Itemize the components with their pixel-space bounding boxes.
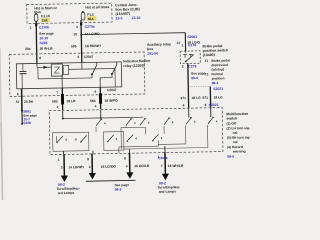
svg-text:(14A067): (14A067) [115,12,130,16]
output wire 4 with arrow [161,152,169,180]
switch interior bus [62,108,211,120]
svg-text:583: 583 [52,99,58,103]
svg-text:C2047: C2047 [107,88,117,92]
svg-text:8: 8 [39,56,41,60]
output wire 2 with arrow [88,154,96,180]
svg-text:nal: nal [233,140,238,144]
svg-text:20 W-LB: 20 W-LB [40,47,54,51]
output wire 1 with arrow [60,154,68,182]
splice S2061 label [176,35,200,48]
flasher IC box [51,64,62,76]
relay bottom pin labels [17,88,117,96]
multifunction switch label [226,112,251,159]
svg-text:position: position [212,76,225,80]
svg-text:C276: C276 [188,64,196,68]
svg-text:13-2: 13-2 [115,16,122,20]
svg-text:6: 6 [124,157,126,161]
svg-text:98-4: 98-4 [212,81,219,85]
svg-text:20 BK: 20 BK [24,100,34,104]
svg-text:15A: 15A [42,18,49,22]
multifunction switch box (dashed) [49,108,223,155]
svg-text:4: 4 [126,164,128,168]
svg-text:(3) RH turn sig-: (3) RH turn sig- [227,135,251,139]
svg-text:13-10: 13-10 [131,16,140,20]
svg-text:ard Lamps: ard Lamps [58,191,75,195]
svg-text:18 LG: 18 LG [191,96,201,100]
relay coil drop [61,74,63,87]
switch lower contact group 4 [152,134,163,141]
svg-text:nal: nal [233,131,238,135]
brake pedal switch label [202,44,230,85]
wire 584 18 W/PD [90,87,119,110]
switch contact d [164,117,174,124]
output wire 3 with arrow [126,153,134,179]
wire 971 18 LG from brake switch [182,63,206,108]
svg-text:4: 4 [57,105,59,109]
svg-text:3: 3 [61,165,63,169]
svg-text:T1: T1 [204,59,208,63]
svg-text:See page: See page [115,183,130,187]
svg-text:98-4: 98-4 [227,155,234,159]
svg-text:S2061: S2061 [187,35,197,39]
CJB name label [115,3,140,20]
svg-text:16 OG/LB: 16 OG/LB [134,164,150,168]
connector C2021 labels top [183,103,219,108]
bottom wire labels [61,163,184,170]
connector C270b labels [25,25,55,51]
svg-text:3: 3 [77,55,79,59]
svg-text:10-10: 10-10 [39,36,48,40]
svg-text:7: 7 [161,164,163,168]
svg-text:S228: S228 [39,41,47,45]
scan edge shading [0,48,3,202]
svg-text:relay (13350): relay (13350) [123,64,144,68]
svg-text:C2047: C2047 [84,55,94,59]
svg-text:14: 14 [176,41,180,45]
svg-text:Indicator flasher: Indicator flasher [123,59,151,64]
wire 585 18 RD/WH from fuse F1.2 [80,20,83,63]
central junction box (CJB) dashed box [27,3,112,24]
svg-text:Auxiliary relay: Auxiliary relay [147,42,171,46]
svg-text:S206: S206 [23,121,31,125]
svg-text:101-50: 101-50 [147,52,158,56]
svg-text:50A: 50A [88,17,95,21]
svg-text:6: 6 [17,92,19,96]
svg-text:(13480): (13480) [203,53,215,57]
auxiliary relay box (dashed) [9,52,145,96]
svg-text:4: 4 [183,104,185,108]
switch contact f [208,117,218,124]
relay coil box [63,65,69,74]
svg-text:2: 2 [89,165,91,169]
svg-text:14 LG/WH: 14 LG/WH [68,165,84,169]
svg-text:C276: C276 [188,43,196,47]
branch wire to brake pedal switch [80,32,185,55]
ground wire labels [16,100,38,126]
fuse F1.2 [81,5,110,21]
destination label 3 [157,181,180,194]
switch lower contact group 3 [121,127,146,149]
svg-text:C270b: C270b [39,25,49,29]
switch lower contact group 1 [53,132,89,151]
svg-text:98-4: 98-4 [191,76,198,80]
svg-text:1: 1 [181,43,183,47]
relay contact 2 [100,62,117,87]
wire 583 18 LB [52,88,76,110]
svg-text:18 LG: 18 LG [213,95,223,99]
svg-text:971: 971 [180,96,186,100]
wire labels 971 18 LG [180,95,223,100]
svg-text:box: box [147,47,153,51]
svg-text:1: 1 [58,158,60,162]
svg-text:18 W/PD: 18 W/PD [104,99,118,103]
svg-text:C2021: C2021 [209,103,219,107]
svg-text:switch: switch [226,116,237,120]
svg-text:C270a: C270a [85,25,95,29]
svg-text:Hot at all times: Hot at all times [85,5,109,9]
svg-text:971: 971 [202,96,208,100]
svg-text:C2036: C2036 [158,156,168,160]
svg-text:S2021: S2021 [213,87,223,91]
svg-text:1: 1 [30,26,32,30]
switch contact c [140,118,150,125]
svg-text:584: 584 [90,99,96,103]
svg-text:18 LG/OG: 18 LG/OG [101,164,117,168]
svg-text:(2) LH turn sig-: (2) LH turn sig- [227,126,251,130]
capacitor C [19,64,26,89]
destination label 2 [115,183,130,192]
indicator flasher relay label [123,59,151,68]
svg-text:2: 2 [182,65,184,69]
svg-text:8: 8 [87,157,89,161]
svg-text:585: 585 [71,44,77,48]
svg-text:98-3: 98-3 [115,187,122,191]
switch lower contact group 2 [104,132,124,151]
bottom pin labels [58,155,168,162]
svg-text:Multifunction: Multifunction [226,112,248,116]
switch routing rails [96,125,208,153]
svg-text:and Lamps: and Lamps [159,189,177,193]
svg-text:57: 57 [16,100,20,104]
svg-text:204: 204 [25,47,31,51]
brake pedal position switch box [180,51,200,64]
svg-text:F1.2: F1.2 [87,13,94,17]
svg-text:warning: warning [232,149,246,153]
svg-text:18 LB: 18 LB [66,99,76,103]
continuation line [86,179,135,182]
svg-text:18 WH/LB: 18 WH/LB [168,164,184,168]
svg-text:(w/stop): (w/stop) [211,67,224,71]
switch internal drops [63,146,165,154]
svg-text:See page: See page [191,71,206,75]
diode arrow [43,66,48,69]
svg-text:8: 8 [205,103,207,107]
svg-text:position switch: position switch [203,48,229,52]
relay interior wiring [37,63,82,70]
svg-text:7: 7 [56,90,58,94]
indicator flasher relay box [16,62,121,89]
svg-text:1: 1 [76,25,78,29]
svg-text:4: 4 [94,90,96,94]
wire 204 20 W-LB from fuse F1.10 [35,21,38,63]
fuse F1.10 [34,6,58,23]
svg-text:4: 4 [95,104,97,108]
switch contact a [96,119,106,126]
splice S2021 [189,86,223,91]
switch top pin labels [57,104,97,109]
relay interior rail [69,68,116,87]
svg-text:(1) Off: (1) Off [226,121,237,125]
wire 57 20 BK (ground) [21,89,24,125]
switch contact e [186,117,196,124]
wire 971 18 LG branch 2 [209,86,211,107]
relay contact 1 [38,62,97,79]
switch contact b [126,118,136,125]
destination label 1 [57,182,80,195]
connector C270a labels [71,24,102,59]
auxiliary relay box label [147,42,171,55]
svg-text:18 RD/WH: 18 RD/WH [85,44,101,48]
svg-text:See page: See page [39,32,54,36]
svg-text:10: 10 [73,32,77,36]
